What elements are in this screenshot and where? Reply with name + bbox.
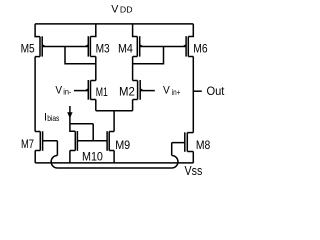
svg-text:DD: DD [120, 5, 133, 15]
svg-text:Out: Out [207, 84, 225, 98]
wire right branch M6 to M8 (output) [192, 57, 194, 133]
wire M7 gate down [43, 141, 58, 156]
transistor M1 [85, 80, 96, 100]
svg-text:M1: M1 [96, 85, 108, 99]
transistor M6 [183, 24, 194, 57]
wire M9 source to rail [113, 151, 115, 163]
wire gate tie M4-M6 [140, 46, 186, 48]
transistor M8 [185, 132, 194, 152]
transistor M4 [133, 24, 144, 57]
svg-text:V: V [55, 84, 62, 96]
transistor M7 [35, 131, 43, 151]
wire hop left [51, 156, 57, 169]
wire tail junction [96, 100, 133, 132]
label VDD [111, 4, 132, 16]
wire hop right [172, 156, 178, 169]
svg-text:Vss: Vss [185, 163, 203, 178]
transistor M2 [133, 80, 144, 100]
svg-text:M4: M4 [118, 41, 133, 55]
svg-text:bias: bias [47, 114, 59, 123]
wire Vin- lead [74, 90, 88, 92]
wire diode connection left [65, 47, 96, 64]
svg-text:V: V [163, 85, 170, 97]
wire VDD top rail [35, 23, 193, 25]
wire M7 source to rail [34, 151, 36, 163]
wire M8 gate up [172, 143, 185, 156]
svg-text:M5: M5 [21, 41, 35, 55]
wire diode connection right [133, 47, 164, 64]
transistor M3 [85, 24, 96, 57]
wire bias under rail [57, 167, 171, 169]
svg-text:V: V [111, 4, 119, 16]
transistor M10 [70, 124, 78, 151]
wire M8 source to rail [192, 152, 194, 163]
wire gate tie M10-M9 [77, 140, 107, 142]
wire Out stub [193, 90, 202, 92]
svg-text:M6: M6 [193, 41, 207, 55]
wire Ibias with arrow [69, 106, 71, 124]
wire M10 diode connection [70, 124, 93, 141]
svg-text:M10: M10 [82, 150, 103, 164]
wire M4 drain to M2 drain [132, 57, 134, 81]
svg-text:M2: M2 [119, 85, 135, 99]
wire gate tie M5-M3 [42, 46, 88, 48]
svg-text:M8: M8 [196, 138, 210, 152]
svg-text:in+: in+ [172, 88, 181, 97]
transistor M5 [35, 24, 46, 57]
svg-text:M7: M7 [21, 137, 34, 151]
wire Vss bottom rail [35, 162, 193, 164]
svg-text:in-: in- [63, 88, 72, 97]
label Vin- [55, 84, 71, 96]
label Ibias [44, 111, 59, 123]
svg-text:M9: M9 [115, 138, 130, 152]
transistor M9 [107, 131, 114, 151]
label Vin+ [163, 85, 181, 97]
svg-text:M3: M3 [96, 41, 110, 55]
wire Vin+ lead [140, 90, 155, 92]
wire left branch M5 to M7 [34, 57, 36, 132]
wire M3 drain to M1 drain [95, 57, 97, 81]
wire M10 source to rail [69, 151, 71, 163]
